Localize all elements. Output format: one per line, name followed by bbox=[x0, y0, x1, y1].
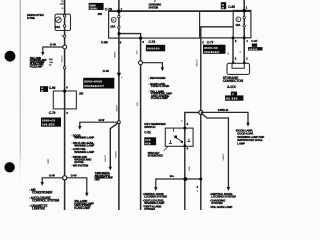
svg-text:PLATE LAMP: PLATE LAMP bbox=[74, 206, 90, 210]
svg-text:· MFI SYSTEM: · MFI SYSTEM bbox=[72, 163, 89, 167]
svg-text:PLATE LAMP: PLATE LAMP bbox=[151, 96, 168, 100]
arrowhead to tail lamp list bottom bbox=[85, 193, 88, 197]
junction circle W6 y112.4 bbox=[199, 110, 203, 114]
right branch at y177.8 bbox=[65, 178, 87, 193]
svg-text:C-79: C-79 bbox=[49, 111, 56, 115]
svg-text:UNIT: UNIT bbox=[95, 178, 101, 182]
connector C-65 icon bbox=[221, 2, 226, 9]
junction block J/B 3 bbox=[53, 91, 76, 109]
svg-text:-TAIL GATE LAMP: -TAIL GATE LAMP bbox=[210, 205, 233, 209]
wire W3 shifted branch bbox=[110, 123, 118, 167]
arrowhead to defogger list bbox=[161, 67, 164, 71]
svg-text:80690: 80690 bbox=[249, 49, 258, 51]
svg-text:00C8EECCT: 00C8EECCT bbox=[84, 84, 104, 88]
svg-text:8505=00: 8505=00 bbox=[204, 46, 218, 50]
connector C-76 box bbox=[146, 45, 165, 52]
key reminder switch box bbox=[165, 128, 193, 146]
svg-text:C-78: C-78 bbox=[105, 8, 112, 12]
wire W7 storage pin2 vertical bbox=[232, 38, 234, 64]
svg-text:G-W: G-W bbox=[50, 43, 56, 47]
stray scan marks right of tail lamp list bbox=[49, 59, 53, 61]
svg-text:G-W: G-W bbox=[49, 173, 55, 177]
junction dot bus/W8 bbox=[243, 9, 246, 12]
wire W8 C-65 fuse vertical bbox=[243, 0, 245, 63]
connector C-77 box bbox=[203, 45, 226, 54]
arrowhead to central door locking list bbox=[154, 187, 157, 191]
arrowhead to bottom right list bbox=[227, 187, 230, 191]
wire W6 right main vertical bbox=[201, 27, 233, 210]
top bus wire bbox=[109, 10, 251, 12]
arrowhead to tail lamp list bbox=[41, 52, 44, 56]
junction dot W5/y179 bbox=[184, 177, 188, 181]
svg-text:C-76: C-76 bbox=[149, 40, 156, 44]
svg-text:CONTROL SYSTEM: CONTROL SYSTEM bbox=[32, 198, 59, 202]
svg-text:LAMP: LAMP bbox=[237, 142, 245, 146]
inner tap to C-76 bbox=[119, 34, 141, 39]
svg-text:TAPE PLAYER: TAPE PLAYER bbox=[151, 84, 170, 88]
wire W2 main center vertical B-W bbox=[118, 0, 120, 210]
charging system stub bbox=[154, 0, 156, 2]
svg-text:FUSE: FUSE bbox=[27, 16, 35, 20]
arrowhead to air conditioner list bbox=[41, 182, 44, 186]
svg-text:D-45: D-45 bbox=[103, 69, 110, 73]
junction dot W6/y179 bbox=[199, 178, 202, 181]
svg-text:IS REMOVED: IS REMOVED bbox=[148, 153, 163, 157]
junction circle W1 y177.8 bbox=[63, 176, 67, 180]
svg-text:0.85R-B: 0.85R-B bbox=[218, 108, 229, 112]
svg-text:UUAU: UUAU bbox=[90, 7, 98, 11]
junction dot W7 top bbox=[232, 37, 235, 40]
svg-text:A-11X: A-11X bbox=[227, 85, 237, 89]
svg-text:C-96: C-96 bbox=[49, 86, 56, 90]
svg-text:10A: 10A bbox=[55, 25, 61, 29]
svg-text:LIGHTER: LIGHTER bbox=[32, 206, 45, 210]
scan page edge line bbox=[20, 0, 21, 186]
svg-text:SYSTEM: SYSTEM bbox=[149, 5, 159, 9]
svg-text:000.8EE: 000.8EE bbox=[42, 122, 55, 126]
svg-text:POLE LAMP: POLE LAMP bbox=[30, 64, 43, 68]
svg-text:· DEFOGGER: · DEFOGGER bbox=[148, 76, 166, 80]
junction dots switch bbox=[184, 127, 187, 129]
svg-text:CONNECTOR: CONNECTOR bbox=[223, 79, 244, 83]
connector A-11X box wide bbox=[225, 95, 243, 100]
connector D-45 box bbox=[83, 78, 114, 89]
svg-text:WARNING LAMP: WARNING LAMP bbox=[74, 150, 94, 154]
hole punch bottom bbox=[4, 162, 14, 172]
connector C-67 box wide bbox=[248, 47, 262, 50]
fuse terminals W8 bbox=[243, 16, 245, 18]
svg-text:00C8EEC: 00C8EEC bbox=[204, 50, 219, 54]
branch wire left at y 47 bbox=[43, 47, 65, 52]
arrowhead W3 to turn-signal block bbox=[109, 167, 112, 171]
dedicated fuse symbol bbox=[56, 17, 62, 23]
wire W4 C-76 vertical bbox=[140, 38, 142, 210]
connector C-67 box small bbox=[252, 44, 257, 47]
svg-text:SYSTEM: SYSTEM bbox=[144, 207, 155, 210]
svg-text:8005=C0: 8005=C0 bbox=[42, 119, 56, 123]
branch at y122.2 to left bbox=[80, 122, 119, 126]
connector A-11X box small bbox=[231, 92, 237, 96]
svg-text:C-77: C-77 bbox=[207, 40, 214, 44]
junction circle W4 bbox=[139, 61, 143, 65]
hole punch top bbox=[5, 51, 16, 62]
J/B1 fuse circle bbox=[111, 17, 116, 22]
svg-text:WARNING LAMP: WARNING LAMP bbox=[74, 136, 94, 140]
junction circle W2 y122.2 bbox=[118, 121, 121, 124]
junction dots storage top bbox=[232, 62, 234, 64]
junction dot bus/W2 bbox=[117, 10, 120, 13]
svg-text:C-98: C-98 bbox=[101, 40, 108, 44]
connector C-96 box bbox=[40, 86, 48, 92]
junction block J/B 2 bbox=[233, 10, 251, 37]
arrowhead to warning lamp list bbox=[78, 126, 81, 130]
wire W1 main left vertical G-W bbox=[64, 0, 66, 210]
branch to room lamp bbox=[201, 112, 248, 123]
dedicated fuse box bbox=[55, 14, 71, 30]
svg-text:800000: 800000 bbox=[147, 47, 160, 51]
page background bbox=[0, 0, 280, 210]
junction dot J/B3 top bbox=[63, 90, 66, 93]
connector C-51 box bbox=[144, 137, 156, 145]
terminal circle W1 below fuse bbox=[63, 35, 66, 38]
flow arrow on W2 bbox=[117, 73, 121, 78]
storage connector box bbox=[227, 63, 250, 74]
wire W5 key reminder switch vertical bbox=[185, 112, 201, 210]
svg-text:80.690: 80.690 bbox=[226, 97, 238, 101]
connector C-79 box bbox=[41, 118, 61, 127]
svg-text:456: 456 bbox=[145, 143, 151, 146]
arrowhead to room lamp list bbox=[246, 123, 249, 127]
junction block J/B 1 bbox=[109, 11, 200, 38]
junction dot W4 top bbox=[139, 37, 142, 40]
svg-text:8505=5008: 8505=5008 bbox=[84, 80, 102, 84]
svg-text:C-67: C-67 bbox=[251, 39, 258, 43]
svg-text:G-W: G-W bbox=[71, 173, 77, 177]
junction dot tap/W2 bbox=[118, 32, 121, 35]
svg-text:CONDITIONER: CONDITIONER bbox=[32, 190, 53, 194]
svg-text:C-65: C-65 bbox=[228, 5, 235, 9]
svg-text:0.85B: 0.85B bbox=[189, 166, 191, 171]
branch diagonal to right lower bbox=[201, 113, 228, 187]
svg-text:B-W: B-W bbox=[99, 118, 105, 122]
switch internals bbox=[184, 128, 186, 132]
storage connector bridge bbox=[232, 63, 244, 68]
svg-text:123: 123 bbox=[145, 139, 151, 142]
branch to defogger list bbox=[141, 63, 163, 68]
wire branch to air conditioner list bbox=[42, 178, 64, 182]
terminal circle W1 y67.7 bbox=[63, 66, 66, 69]
connector C-78 box bbox=[89, 3, 104, 10]
bottom horizontal y179 bbox=[156, 179, 201, 187]
J/B2 fuse circle bbox=[236, 17, 241, 22]
junction circle W1 y47 bbox=[63, 45, 67, 49]
fuse terminals W2 bbox=[118, 15, 120, 17]
svg-text:C-51: C-51 bbox=[144, 131, 151, 135]
fuse terminal circles W1 bbox=[63, 15, 66, 18]
J/B boundary line segment between blocks bbox=[200, 37, 234, 39]
svg-text:B-L: B-L bbox=[170, 174, 175, 178]
svg-text:SWITCH: SWITCH bbox=[144, 125, 156, 129]
junction dot W8 bottom edge bbox=[243, 37, 246, 40]
